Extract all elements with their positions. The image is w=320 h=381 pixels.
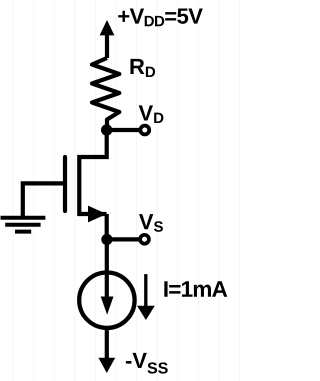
faint background gridlines: [13, 0, 240, 381]
VSS supply arrow (down): [98, 328, 115, 373]
wire source to VS node: [105, 214, 109, 240]
current direction arrow (beside circle): [137, 274, 155, 320]
wire VS node into current source + internal arrow shaft: [105, 240, 109, 300]
resistor RD zigzag: [92, 58, 119, 130]
label VS: [139, 214, 163, 232]
node VD junction dot: [101, 124, 112, 135]
label +VDD=5V: [118, 8, 203, 26]
label VD: [139, 105, 164, 123]
label RD: [130, 59, 155, 77]
label -VSS: [126, 353, 168, 374]
VD open terminal circle: [140, 126, 149, 135]
VDD supply arrow (up): [100, 20, 115, 58]
current source internal arrowhead: [101, 297, 114, 315]
source arrowhead: [88, 206, 107, 223]
VS open terminal circle: [140, 235, 149, 244]
current source I circle: [79, 273, 134, 328]
ground symbol: [1, 218, 46, 232]
gate bar: [63, 157, 67, 211]
label I=1mA: [164, 281, 227, 297]
wire dot to VD terminal: [107, 128, 145, 132]
node VS junction dot: [101, 234, 112, 245]
wire dot to VS terminal: [107, 237, 144, 241]
gate wire to ground: [23, 183, 65, 217]
transistor M1 body: drain wire, channel, source wire: [79, 130, 106, 214]
